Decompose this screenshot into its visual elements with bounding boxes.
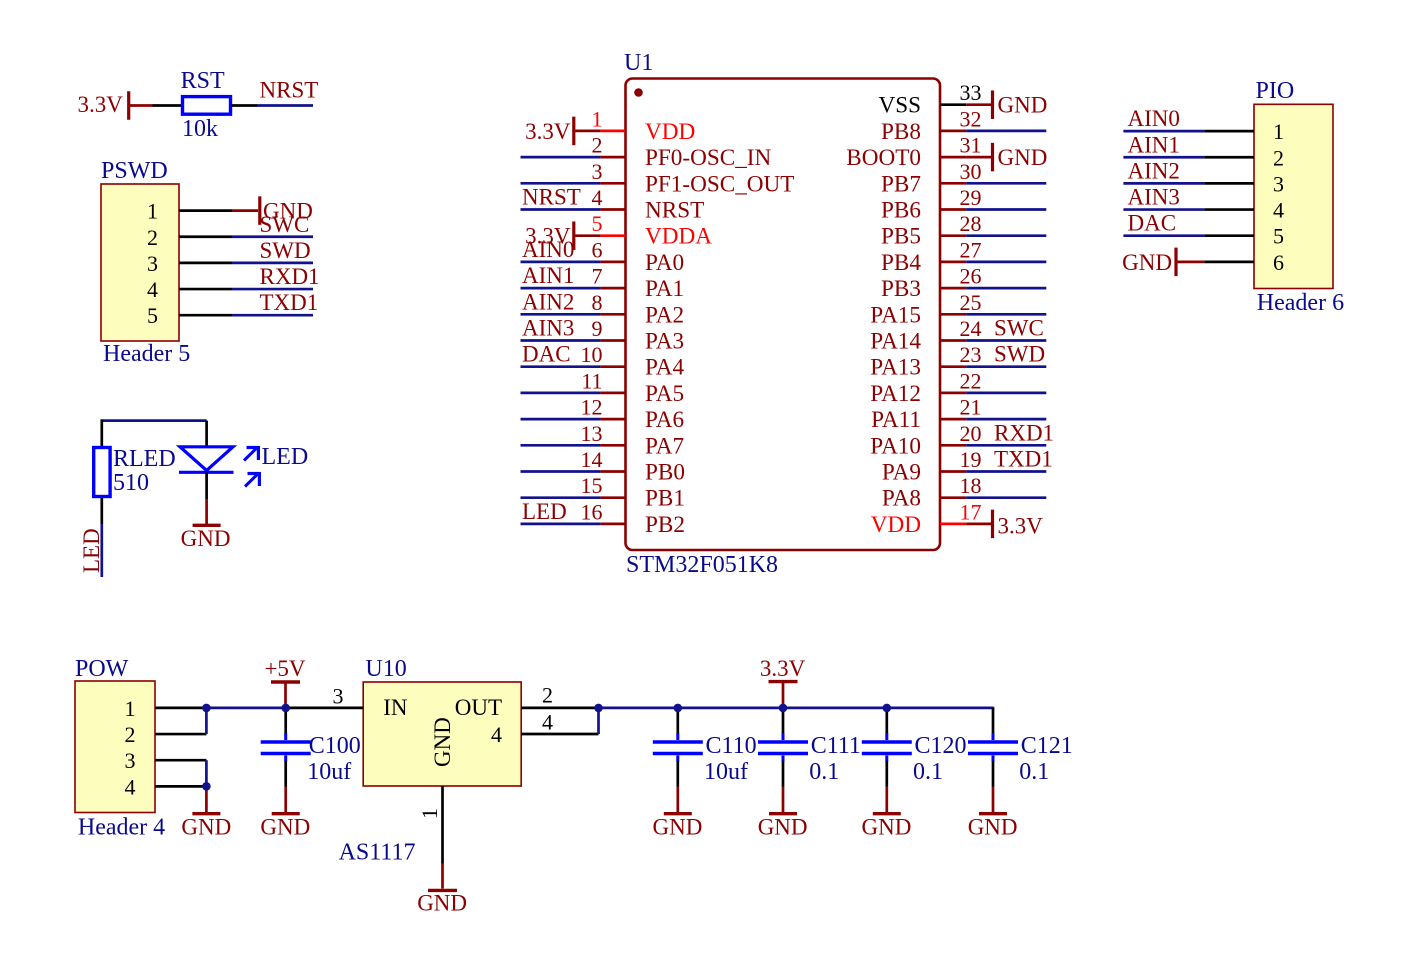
U1 pin 14 name PB0: [645, 460, 685, 486]
U1 pin number 15: [581, 473, 603, 498]
wire (U1 pin 15): [521, 496, 601, 499]
U1 pin 20: [940, 444, 966, 447]
svg-text:C110: C110: [706, 733, 757, 759]
svg-text:25: 25: [960, 290, 982, 315]
svg-text:PIO: PIO: [1256, 78, 1295, 104]
U1 pin 24 name PA14: [870, 329, 921, 355]
U1 pin 19 name PA9: [882, 460, 921, 486]
svg-text:2: 2: [542, 682, 553, 707]
designator C121: [1021, 733, 1073, 759]
svg-text:29: 29: [960, 185, 982, 210]
svg-text:SWC: SWC: [260, 212, 310, 237]
wire (U1 pin 19): [966, 470, 1046, 473]
U1 pin 27: [940, 261, 966, 264]
wire net AIN2: [1123, 182, 1204, 185]
ground GND (U10 pin 1): [417, 864, 467, 916]
capacitor C110: [653, 733, 703, 762]
U1 pin 3 name PF1-OSC_OUT: [645, 171, 794, 197]
junction (POW pin 3/4): [202, 782, 211, 791]
svg-text:3: 3: [592, 159, 603, 184]
U1 pin 12 name PA6: [645, 407, 684, 433]
svg-text:U10: U10: [365, 656, 406, 682]
net label AIN1: [522, 263, 574, 288]
U1 pin number 27: [960, 237, 982, 262]
comment Header 5: [103, 341, 190, 367]
svg-text:15: 15: [581, 473, 603, 498]
svg-text:PA6: PA6: [645, 407, 684, 433]
wire (U1 pin 16): [521, 523, 601, 526]
ground GND (U1 pin 33): [966, 90, 1047, 119]
resistor RLED pin 2: [100, 498, 103, 524]
svg-text:LED: LED: [262, 444, 309, 470]
svg-text:PA9: PA9: [882, 460, 921, 486]
wire net SWC: [232, 235, 313, 238]
connector PIO Header 6 body: [1254, 104, 1333, 288]
PSWD pin 1: [179, 209, 232, 212]
svg-text:5: 5: [592, 211, 603, 236]
net label AIN3: [522, 316, 574, 341]
U1 pin 8 name PA2: [645, 302, 684, 328]
svg-text:PF1-OSC_OUT: PF1-OSC_OUT: [645, 171, 794, 197]
connector PSWD Header 5 body: [101, 184, 179, 341]
U1 pin number 7: [592, 264, 603, 289]
wire (U1 pin 10): [521, 365, 601, 368]
capacitor C111 pin 1: [782, 708, 785, 734]
U1 pin number 23: [960, 342, 982, 367]
value 10k: [182, 116, 218, 142]
junction (C120): [883, 704, 892, 713]
U1 pin number 13: [581, 421, 603, 446]
value 10uf (C100): [307, 759, 351, 785]
net label NRST: [522, 185, 581, 210]
wire +5V jog pin2: [205, 708, 208, 734]
svg-text:16: 16: [581, 499, 603, 524]
svg-text:GND: GND: [181, 815, 231, 840]
svg-text:4: 4: [542, 709, 553, 734]
U1 pin 4 name NRST: [645, 198, 704, 224]
U1 pin 19: [940, 470, 966, 473]
U1 pin number 2: [592, 133, 603, 158]
net label SWC: [260, 212, 310, 237]
svg-text:6: 6: [1273, 250, 1284, 275]
svg-text:PA3: PA3: [645, 329, 684, 355]
wire (U1 pin 11): [521, 392, 601, 395]
wire (U1 pin 4): [521, 208, 601, 211]
svg-text:VDD: VDD: [645, 119, 695, 145]
wire net DAC: [1123, 234, 1204, 237]
svg-text:11: 11: [581, 368, 602, 393]
wire (U1 pin 13): [521, 444, 601, 447]
U1 pin number 12: [581, 395, 603, 420]
wire (U1 pin 6): [521, 261, 601, 264]
PSWD pin number 3: [147, 251, 158, 276]
designator C111: [811, 733, 861, 759]
junction (3.3V / C111): [779, 704, 788, 713]
svg-text:10uf: 10uf: [307, 759, 351, 785]
U1 pin 3: [600, 182, 625, 185]
U1 pin 7: [600, 287, 625, 290]
U1 pin 13 name PA7: [645, 433, 684, 459]
comment Header 6: [1257, 290, 1344, 316]
svg-text:STM32F051K8: STM32F051K8: [626, 552, 778, 578]
svg-text:23: 23: [960, 342, 982, 367]
wire 3.3V rail: [599, 707, 994, 710]
LED pin 2 (cathode lead): [205, 472, 208, 499]
svg-text:8: 8: [592, 290, 603, 315]
wire (U1 pin 7): [521, 287, 601, 290]
svg-text:AIN0: AIN0: [1128, 106, 1180, 131]
svg-text:4: 4: [147, 277, 158, 302]
svg-text:0.1: 0.1: [1019, 759, 1049, 785]
svg-text:PB8: PB8: [881, 119, 921, 145]
ground GND (LED): [181, 499, 231, 551]
svg-text:OUT: OUT: [455, 695, 502, 720]
svg-text:AIN2: AIN2: [1128, 158, 1180, 183]
PSWD pin 2: [179, 235, 232, 238]
U1 pin 9 name PA3: [645, 329, 684, 355]
wire (U1 pin 30): [966, 182, 1046, 185]
svg-text:PA5: PA5: [645, 381, 684, 407]
wire net RXD1: [232, 288, 313, 291]
wire net AIN1: [1123, 156, 1204, 159]
svg-text:RST: RST: [181, 68, 225, 94]
svg-text:POW: POW: [75, 656, 129, 682]
svg-text:10k: 10k: [182, 116, 218, 142]
U1 pin number 25: [960, 290, 982, 315]
comment Header 4: [78, 815, 165, 841]
POW pin number 2: [125, 722, 136, 747]
svg-text:RXD1: RXD1: [260, 264, 320, 289]
U1 pin number 5: [592, 211, 603, 236]
PIO pin 6: [1204, 261, 1254, 264]
svg-text:U1: U1: [624, 50, 653, 76]
designator PIO: [1256, 78, 1295, 104]
svg-text:2: 2: [125, 722, 136, 747]
U10 pin name IN: [383, 695, 408, 720]
U1 pin 1: [600, 130, 625, 133]
U1 pin number 32: [960, 106, 982, 131]
wire (U1 pin 29): [966, 208, 1046, 211]
designator C120: [915, 733, 967, 759]
ground GND (C100): [260, 787, 310, 840]
svg-text:SWD: SWD: [994, 342, 1045, 367]
ground GND (PIO pin 6): [1122, 248, 1204, 277]
PIO pin number 6: [1273, 250, 1284, 275]
POW pin number 4: [125, 774, 136, 799]
wire (U1 pin 25): [966, 313, 1046, 316]
U10 pin name GND (vertical): [430, 717, 455, 767]
wire +5V rail: [206, 707, 285, 710]
svg-text:GND: GND: [181, 526, 231, 551]
U1 pin 25: [940, 313, 966, 316]
U1 pin number 6: [592, 237, 603, 262]
svg-text:4: 4: [592, 185, 603, 210]
svg-text:AIN3: AIN3: [522, 316, 574, 341]
PSWD pin number 1: [147, 199, 158, 224]
wire (U1 pin 22): [966, 392, 1046, 395]
U1 pin 24: [940, 339, 966, 342]
wire (U1 pin 28): [966, 234, 1046, 237]
net label TXD1: [260, 290, 319, 315]
svg-text:5: 5: [147, 303, 158, 328]
svg-text:1: 1: [1273, 119, 1284, 144]
net label TXD1: [994, 447, 1053, 472]
wire net LED: [100, 524, 103, 577]
POW pin 2: [155, 733, 206, 736]
U10 pin 2 (OUT): [521, 707, 598, 710]
U10 pin 4 (OUT): [521, 733, 598, 736]
wire (U1 pin 20): [966, 444, 1046, 447]
svg-text:9: 9: [592, 316, 603, 341]
U1 pin 27 name PB4: [881, 250, 921, 276]
U1 pin 22: [940, 392, 966, 395]
svg-text:GND: GND: [862, 814, 912, 839]
svg-text:GND: GND: [260, 814, 310, 839]
capacitor C110 pin 1: [676, 708, 679, 734]
svg-text:3.3V: 3.3V: [998, 513, 1044, 538]
net label LED (vertical): [79, 528, 104, 573]
U1 pin 31 name BOOT0: [846, 145, 921, 171]
PIO pin number 3: [1273, 171, 1284, 196]
wire (rail corner to C121): [992, 707, 995, 709]
LED diode symbol: [179, 447, 234, 473]
capacitor C100 pin 2: [284, 761, 287, 787]
capacitor C100: [261, 733, 311, 762]
svg-text:GND: GND: [653, 814, 703, 839]
designator RLED: [113, 446, 176, 472]
svg-text:VDDA: VDDA: [645, 224, 712, 250]
svg-text:AIN3: AIN3: [1128, 185, 1180, 210]
capacitor C111 pin 2: [782, 761, 785, 787]
U1 pin number 29: [960, 185, 982, 210]
U1 pin number 19: [960, 447, 982, 472]
resistor RST pin 2: [232, 104, 258, 107]
wire (U1 pin 9): [521, 339, 601, 342]
power port 3.3V (U1 pin 17): [966, 510, 1043, 539]
svg-text:24: 24: [960, 316, 982, 341]
svg-text:33: 33: [960, 80, 982, 105]
svg-text:AIN1: AIN1: [522, 263, 574, 288]
svg-text:Header 4: Header 4: [78, 815, 165, 841]
regulator U10 body: [363, 682, 521, 786]
svg-text:TXD1: TXD1: [260, 290, 319, 315]
U1 pin 8: [600, 313, 625, 316]
U1 pin number 10: [581, 342, 603, 367]
LED D? pin 1 (anode lead): [205, 421, 208, 446]
svg-text:3: 3: [333, 683, 344, 708]
U1 pin 31: [940, 156, 966, 159]
U1 pin number 28: [960, 211, 982, 236]
svg-text:GND: GND: [758, 814, 808, 839]
PIO pin 5: [1204, 234, 1254, 237]
svg-text:6: 6: [592, 237, 603, 262]
wire GND jog pin3: [205, 760, 208, 786]
capacitor C110 pin 2: [676, 761, 679, 787]
svg-text:4: 4: [1273, 198, 1284, 223]
svg-text:AIN0: AIN0: [522, 237, 574, 262]
U1 pin number 3: [592, 159, 603, 184]
svg-text:GND: GND: [430, 717, 455, 767]
PSWD pin number 5: [147, 303, 158, 328]
svg-text:510: 510: [113, 470, 149, 496]
svg-text:PSWD: PSWD: [101, 158, 168, 184]
value 0.1 (C120): [913, 759, 943, 785]
svg-text:4: 4: [125, 774, 136, 799]
resistor RST pin 1: [153, 104, 182, 107]
PIO pin number 5: [1273, 224, 1284, 249]
PSWD pin 5: [179, 314, 232, 317]
U1 pin 30 name PB7: [881, 171, 921, 197]
connector POW Header 4 body: [75, 681, 155, 813]
U1 pin 17 name VDD: [871, 512, 921, 538]
svg-text:3: 3: [125, 748, 136, 773]
capacitor C121: [968, 733, 1018, 762]
svg-text:AIN1: AIN1: [1128, 132, 1180, 157]
svg-text:GND: GND: [417, 891, 467, 916]
U1 pin-1 marker dot: [634, 88, 643, 97]
svg-text:VSS: VSS: [878, 93, 921, 119]
svg-text:GND: GND: [998, 145, 1048, 170]
svg-text:NRST: NRST: [260, 78, 319, 103]
designator RST: [181, 68, 225, 94]
value 0.1 (C121): [1019, 759, 1049, 785]
power port +5V: [264, 656, 305, 708]
U1 pin 15: [600, 496, 625, 499]
U1 pin number 4: [592, 185, 603, 210]
svg-text:NRST: NRST: [522, 185, 581, 210]
svg-text:0.1: 0.1: [809, 759, 839, 785]
svg-text:10: 10: [581, 342, 603, 367]
ground GND (PSWD pin 1): [232, 196, 313, 225]
junction (+5V / C100): [281, 704, 290, 713]
svg-text:GND: GND: [998, 93, 1048, 118]
U1 pin 5 name VDDA: [645, 224, 712, 250]
net label DAC: [1128, 211, 1177, 236]
U1 pin number 26: [960, 264, 982, 289]
svg-text:+5V: +5V: [264, 656, 305, 681]
svg-text:13: 13: [581, 421, 603, 446]
PSWD pin 4: [179, 288, 232, 291]
svg-text:14: 14: [581, 447, 603, 472]
junction (U10 OUT): [594, 704, 603, 713]
svg-text:5: 5: [1273, 224, 1284, 249]
ground GND (POW pin 4): [181, 786, 231, 839]
POW pin number 1: [125, 696, 136, 721]
svg-text:PB3: PB3: [881, 276, 921, 302]
svg-text:2: 2: [147, 225, 158, 250]
net label SWD: [260, 238, 311, 263]
svg-text:3: 3: [147, 251, 158, 276]
svg-text:31: 31: [960, 133, 982, 158]
wire (U1 pin 18): [966, 496, 1046, 499]
U10 pin name OUT: [455, 695, 502, 720]
svg-text:BOOT0: BOOT0: [846, 145, 921, 171]
svg-text:GND: GND: [968, 814, 1018, 839]
designator C110: [706, 733, 757, 759]
wire (U1 pin 3): [521, 182, 601, 185]
junction (POW pin 1/2): [202, 704, 211, 713]
wire (U1 pin 12): [521, 418, 601, 421]
POW pin 4: [155, 785, 206, 788]
POW pin number 3: [125, 748, 136, 773]
U1 pin 21: [940, 418, 966, 421]
svg-text:PA8: PA8: [882, 486, 921, 512]
U1 pin 2 name PF0-OSC_IN: [645, 145, 772, 171]
svg-text:PA2: PA2: [645, 302, 684, 328]
svg-text:PA14: PA14: [870, 329, 921, 355]
wire (U1 pin 21): [966, 418, 1046, 421]
svg-text:TXD1: TXD1: [994, 447, 1053, 472]
U1 pin number 17: [960, 499, 982, 524]
U1 pin number 30: [960, 159, 982, 184]
wire (U1 pin 8): [521, 313, 601, 316]
U1 pin number 20: [960, 421, 982, 446]
U1 pin 12: [600, 418, 625, 421]
svg-text:LED: LED: [79, 528, 104, 573]
LED arrow 1: [244, 446, 260, 461]
svg-text:2: 2: [1273, 145, 1284, 170]
capacitor C120 pin 2: [885, 761, 888, 787]
U1 pin 6 name PA0: [645, 250, 684, 276]
svg-text:PA12: PA12: [870, 381, 921, 407]
svg-text:SWC: SWC: [994, 316, 1044, 341]
net label AIN2: [522, 289, 574, 314]
U1 pin number 21: [960, 395, 982, 420]
U1 pin 21 name PA11: [871, 407, 921, 433]
svg-text:28: 28: [960, 211, 982, 236]
U1 pin 10 name PA4: [645, 355, 685, 381]
U1 pin 17: [940, 523, 966, 526]
resistor RST: [183, 97, 231, 115]
svg-text:C100: C100: [309, 733, 361, 759]
wire net SWD: [232, 262, 313, 265]
U1 pin 2: [600, 156, 625, 159]
svg-text:PA4: PA4: [645, 355, 685, 381]
svg-text:22: 22: [960, 368, 982, 393]
wire net TXD1: [232, 314, 313, 317]
svg-text:PA1: PA1: [645, 276, 684, 302]
PSWD pin number 2: [147, 225, 158, 250]
U10 pin 3 (IN): [286, 707, 364, 710]
U1 pin 1 name VDD: [645, 119, 695, 145]
U1 pin number 8: [592, 290, 603, 315]
svg-text:0.1: 0.1: [913, 759, 943, 785]
PIO pin 4: [1204, 208, 1254, 211]
svg-text:26: 26: [960, 264, 982, 289]
LED arrow 2: [245, 472, 261, 487]
wire (U1 pin 27): [966, 261, 1046, 264]
U1 pin 25 name PA15: [870, 302, 921, 328]
designator LED: [262, 444, 309, 470]
U1 pin number 22: [960, 368, 982, 393]
wire (U1 pin 2): [521, 156, 601, 159]
U1 pin number 11: [581, 368, 602, 393]
svg-text:1: 1: [417, 808, 442, 819]
net label NRST: [260, 78, 319, 103]
svg-text:1: 1: [147, 199, 158, 224]
power port 3.3V (U1 pin 1): [525, 117, 600, 145]
svg-text:PB7: PB7: [881, 171, 921, 197]
U1 pin 29 name PB6: [881, 198, 921, 224]
svg-text:1: 1: [125, 696, 136, 721]
U1 pin 29: [940, 208, 966, 211]
svg-text:PA10: PA10: [870, 433, 921, 459]
U1 pin 20 name PA10: [870, 433, 921, 459]
U1 pin 11 name PA5: [645, 381, 684, 407]
ground GND (C120): [862, 787, 912, 840]
U10 pin number 4 (inside): [491, 722, 502, 747]
designator POW: [75, 656, 129, 682]
